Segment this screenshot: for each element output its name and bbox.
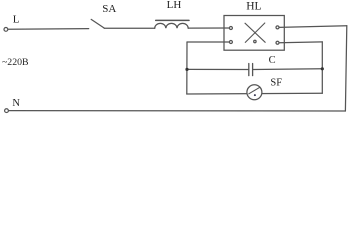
svg-text:SF: SF [270,77,282,88]
left branch vertical [186,42,188,94]
svg-text:SA: SA [102,3,116,15]
svg-text:C: C [269,55,276,66]
capacitor wire left [187,68,249,70]
wire L to switch [8,28,89,31]
lamp pin bottom-left [229,41,232,44]
starter SF circle [247,85,262,100]
inductor LH core bar [156,19,189,21]
lamp pin top-right [276,26,279,29]
lamp pin bottom-right [276,41,279,44]
svg-text:N: N [12,98,20,109]
capacitor wire right [253,68,323,71]
wire lamp bottom-left stub [187,41,229,43]
lamp pin top-left [229,27,232,30]
svg-text:L: L [13,14,20,26]
inductor LH coil [155,23,189,28]
lamp X stroke 1 [245,23,265,42]
bottom wire N [8,110,345,112]
right rail vertical [345,26,346,111]
capacitor C plate right [252,64,254,76]
wire switch to inductor [104,27,155,29]
svg-text:LH: LH [167,0,182,11]
starter SF contact dot [254,94,256,96]
junction dot right [321,67,324,70]
right branch vertical [321,42,323,93]
capacitor C plate left [248,64,250,76]
lamp small circle [254,40,256,42]
svg-text:~220В: ~220В [2,57,29,68]
lamp HL box [224,16,284,51]
starter SF electrode [249,87,260,94]
wire lamp top-right to right rail [279,26,347,28]
svg-text:HL: HL [246,0,261,12]
switch SA blade [91,19,104,28]
lamp X stroke 2 [245,23,264,42]
junction dot left [185,68,188,71]
terminal L [4,28,8,32]
starter branch wire [187,92,322,95]
terminal N [5,109,9,113]
wire inductor to lamp box [188,27,229,29]
wire lamp bottom-right stub [279,41,322,44]
